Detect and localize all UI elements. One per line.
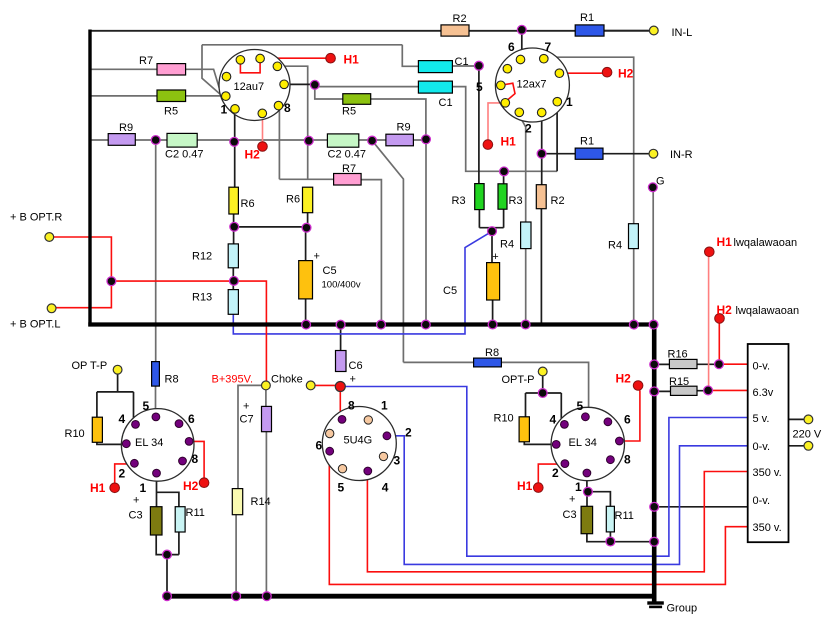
svg-text:5U4G: 5U4G xyxy=(344,435,373,447)
svg-text:6.3v: 6.3v xyxy=(753,387,774,399)
svg-text:2: 2 xyxy=(405,426,412,440)
svg-text:R6: R6 xyxy=(286,194,300,206)
svg-text:R2: R2 xyxy=(551,195,565,207)
svg-text:1: 1 xyxy=(221,103,228,117)
svg-text:+: + xyxy=(492,251,498,263)
svg-text:C5: C5 xyxy=(323,265,337,277)
svg-text:R5: R5 xyxy=(342,106,356,118)
svg-text:R8: R8 xyxy=(165,374,179,386)
svg-text:C6: C6 xyxy=(349,360,363,372)
svg-text:3: 3 xyxy=(394,454,401,468)
svg-text:+ B OPT.L: + B OPT.L xyxy=(10,319,60,331)
svg-text:H1: H1 xyxy=(517,479,533,493)
svg-text:C2 0.47: C2 0.47 xyxy=(165,149,204,161)
svg-text:C7: C7 xyxy=(240,414,254,426)
svg-text:H1: H1 xyxy=(717,235,733,249)
svg-text:R4: R4 xyxy=(608,240,622,252)
svg-text:0-v.: 0-v. xyxy=(753,495,771,507)
svg-text:R10: R10 xyxy=(65,428,85,440)
svg-text:OPT-P: OPT-P xyxy=(502,374,535,386)
svg-text:C3: C3 xyxy=(129,510,143,522)
svg-text:5: 5 xyxy=(143,399,150,413)
svg-text:G: G xyxy=(656,176,665,188)
svg-text:1: 1 xyxy=(140,481,147,495)
svg-text:+: + xyxy=(133,495,139,507)
svg-text:12au7: 12au7 xyxy=(234,81,265,93)
svg-text:7: 7 xyxy=(545,40,552,54)
svg-text:H2: H2 xyxy=(618,67,634,81)
svg-text:C1: C1 xyxy=(439,97,453,109)
svg-text:R11: R11 xyxy=(186,507,205,519)
svg-text:+: + xyxy=(243,401,249,413)
svg-text:5: 5 xyxy=(577,399,584,413)
svg-text:H1: H1 xyxy=(90,481,106,495)
svg-text:5: 5 xyxy=(476,80,483,94)
svg-text:R13: R13 xyxy=(192,292,212,304)
svg-text:6: 6 xyxy=(316,439,323,453)
svg-text:R8: R8 xyxy=(485,347,499,359)
svg-text:4: 4 xyxy=(382,481,389,495)
svg-text:1: 1 xyxy=(381,399,388,413)
svg-text:+ B OPT.R: + B OPT.R xyxy=(10,212,62,224)
svg-text:R3: R3 xyxy=(452,195,466,207)
svg-text:R11: R11 xyxy=(615,510,634,522)
svg-text:Group: Group xyxy=(667,603,698,615)
svg-text:C1: C1 xyxy=(455,56,469,68)
svg-text:Choke: Choke xyxy=(271,374,303,386)
svg-text:0-v.: 0-v. xyxy=(753,361,771,373)
svg-text:R15: R15 xyxy=(669,376,689,388)
svg-text:+: + xyxy=(350,374,356,386)
svg-text:6: 6 xyxy=(188,412,195,426)
svg-text:R4: R4 xyxy=(500,239,514,251)
svg-text:5: 5 xyxy=(338,481,345,495)
svg-text:0-v.: 0-v. xyxy=(753,441,771,453)
svg-text:EL 34: EL 34 xyxy=(569,437,597,449)
svg-text:R6: R6 xyxy=(241,198,255,210)
svg-text:IN-R: IN-R xyxy=(670,149,693,161)
svg-text:C2 0.47: C2 0.47 xyxy=(328,149,367,161)
svg-text:4: 4 xyxy=(550,413,557,427)
svg-text:EL 34: EL 34 xyxy=(135,437,163,449)
svg-text:H2: H2 xyxy=(616,372,632,386)
svg-text:2: 2 xyxy=(119,467,126,481)
svg-text:B+395V.: B+395V. xyxy=(212,374,254,386)
svg-text:8: 8 xyxy=(624,453,631,467)
svg-text:6: 6 xyxy=(624,413,631,427)
svg-text:220 V: 220 V xyxy=(793,429,822,441)
svg-text:R7: R7 xyxy=(342,163,356,175)
svg-text:5 v.: 5 v. xyxy=(753,413,770,425)
svg-text:2: 2 xyxy=(552,466,559,480)
svg-text:100/400v: 100/400v xyxy=(322,280,361,291)
svg-text:R9: R9 xyxy=(119,122,133,134)
svg-text:8: 8 xyxy=(192,452,199,466)
svg-text:R5: R5 xyxy=(164,106,178,118)
svg-text:R12: R12 xyxy=(192,251,212,263)
svg-text:H1: H1 xyxy=(501,135,517,149)
svg-text:R3: R3 xyxy=(509,195,523,207)
svg-text:H2: H2 xyxy=(717,303,733,317)
svg-text:OP T-P: OP T-P xyxy=(72,360,108,372)
svg-text:C5: C5 xyxy=(443,285,457,297)
svg-text:8: 8 xyxy=(284,101,291,115)
svg-text:R2: R2 xyxy=(453,13,467,25)
svg-text:+: + xyxy=(569,494,575,506)
svg-text:lwqalawaoan: lwqalawaoan xyxy=(736,305,800,317)
svg-text:2: 2 xyxy=(525,122,532,136)
svg-text:R10: R10 xyxy=(494,413,514,425)
svg-text:IN-L: IN-L xyxy=(672,27,693,39)
svg-text:H2: H2 xyxy=(183,479,199,493)
svg-text:6: 6 xyxy=(508,40,515,54)
svg-text:12ax7: 12ax7 xyxy=(517,79,547,91)
svg-text:1: 1 xyxy=(575,480,582,494)
svg-text:R9: R9 xyxy=(397,122,411,134)
svg-text:lwqalawaoan: lwqalawaoan xyxy=(734,237,798,249)
svg-text:+: + xyxy=(314,251,320,263)
svg-text:8: 8 xyxy=(348,399,355,413)
svg-text:350 v.: 350 v. xyxy=(753,522,782,534)
svg-text:350 v.: 350 v. xyxy=(753,467,782,479)
svg-text:R1: R1 xyxy=(580,136,594,148)
svg-text:R7: R7 xyxy=(139,55,153,67)
svg-text:R16: R16 xyxy=(668,349,688,361)
svg-text:4: 4 xyxy=(119,412,126,426)
svg-text:C3: C3 xyxy=(563,509,577,521)
svg-text:1: 1 xyxy=(566,95,573,109)
svg-text:H1: H1 xyxy=(344,53,360,67)
svg-text:R14: R14 xyxy=(251,496,271,508)
svg-text:R1: R1 xyxy=(580,12,594,24)
svg-text:H2: H2 xyxy=(245,148,261,162)
